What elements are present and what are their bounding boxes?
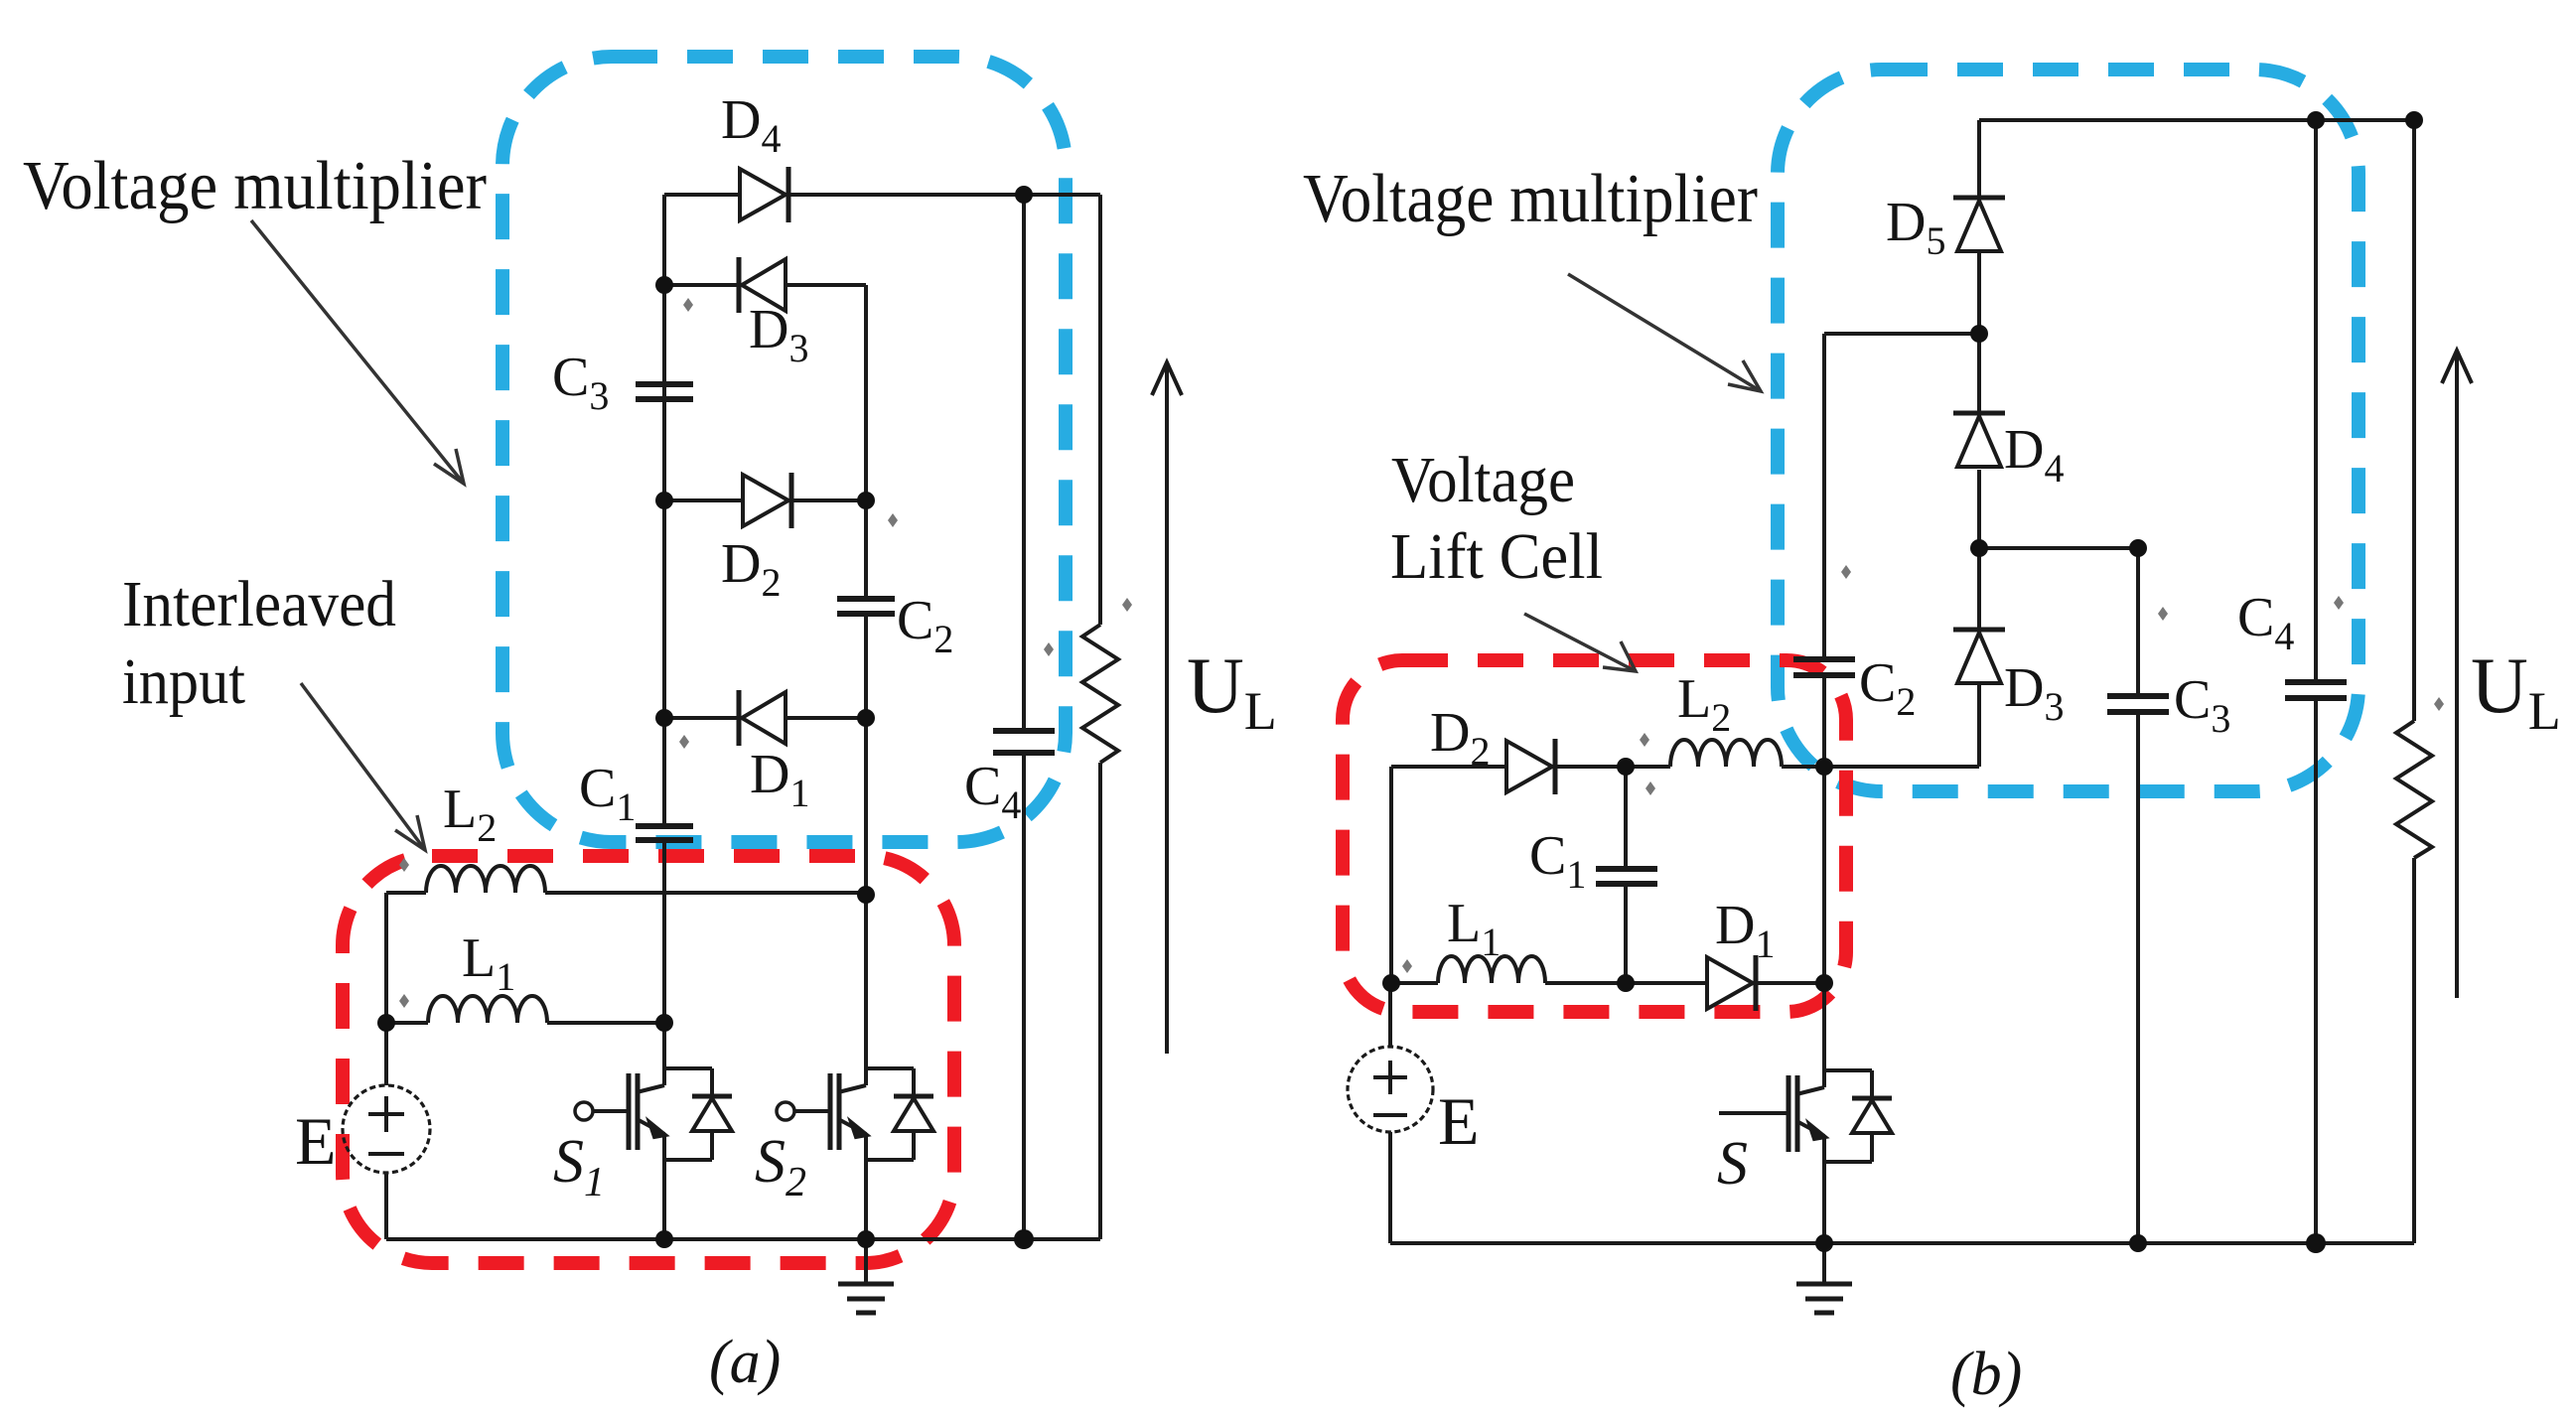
wire: D5 to D4 node (b) <box>1977 251 1981 411</box>
wire: L1 right lead to S1 drain node (a) <box>547 1021 664 1025</box>
diode D3 (b) vertical pointing up <box>1953 628 2005 633</box>
svg-text:Voltage: Voltage <box>1391 444 1575 516</box>
annotation arrow to interleaved input box (a) <box>301 683 425 850</box>
wire: C3 branch vertical (b) <box>2136 548 2140 695</box>
wire: C4 branch vertical x=1031 (a) <box>1022 195 1026 730</box>
node: L1-E junction <box>377 1014 395 1032</box>
node: D2 right junction <box>857 492 875 509</box>
wire: L2 node down to D1 node (b) <box>1822 767 1826 983</box>
diode D1 (b) horizontal pointing right <box>1707 957 1753 1009</box>
voltage source E (b) <box>1348 1047 1433 1132</box>
diode D2 (b) horizontal pointing right <box>1506 741 1552 792</box>
wire: right bus D1 to L2 node to S2 drain (a) <box>864 718 868 1068</box>
wire: load branch vertical x=1108 top (a) <box>1098 195 1102 625</box>
node: S2 emitter rail ground junction <box>857 1230 875 1248</box>
svg-text:Voltage multiplier: Voltage multiplier <box>23 148 487 224</box>
svg-text:E: E <box>295 1103 337 1179</box>
transistor S2 (IGBT) (a) <box>866 1066 914 1070</box>
transistor S1 (IGBT) (a) <box>664 1066 712 1070</box>
voltage source E (a) <box>343 1085 430 1173</box>
annotation arrow to multiplier box (b) <box>1568 274 1761 391</box>
inductor L2 (a) <box>426 866 545 893</box>
node: L2-S2 drain junction <box>857 886 875 904</box>
wire: left bus top (D4 row) (a) <box>664 193 740 197</box>
capacitor C4 (a) <box>993 728 1055 734</box>
wire: L2 left lead (a) <box>386 891 426 895</box>
node: D5-D4 / C2 junction <box>1970 325 1988 343</box>
diode D1 (a) <box>742 692 786 744</box>
junction node dots (a) <box>377 186 1034 1249</box>
wire: D1 row (a) <box>664 716 739 720</box>
node: D1 right junction <box>857 709 875 727</box>
capacitor C2 (a) <box>837 596 895 602</box>
interleaved input dashed boundary box (a) <box>343 856 954 1263</box>
svg-text:Interleaved: Interleaved <box>122 568 396 640</box>
node: D2-L2-C1 junction <box>1617 758 1635 776</box>
wire: D2 anode left vertical (b) <box>1389 767 1393 983</box>
voltage lift cell dashed boundary box (b) <box>1343 660 1846 1012</box>
load resistor R (a) <box>1082 625 1118 763</box>
node: L1-S1 drain junction <box>655 1014 673 1032</box>
annotation arrow to lift cell box (b) <box>1524 614 1636 671</box>
output voltage arrow UL (a) <box>1165 362 1169 1054</box>
wire: E source top lead up to L2 (a) <box>384 893 388 1085</box>
wire: right vertical bus x=872 from D3 to C2 (a) <box>864 285 868 598</box>
capacitor C2 (b) <box>1793 656 1855 662</box>
node: D1 left junction <box>655 709 673 727</box>
node: D4-D3 junction <box>1970 539 1988 557</box>
diode D2 (a) <box>743 475 788 526</box>
wire: C3 branch horizontal at D4-D3 node (b) <box>1979 546 2138 550</box>
annotation arrow to multiplier box (a) <box>251 220 464 484</box>
diode D5 (b) vertical pointing up <box>1953 196 2005 201</box>
svg-text:Lift Cell: Lift Cell <box>1390 520 1603 593</box>
wire: bottom rail (b) <box>1390 1241 2414 1245</box>
wire: load branch vertical bottom (a) <box>1098 763 1102 1239</box>
wire: C4 branch vertical (b) <box>2314 120 2318 681</box>
node: D1-S drain junction <box>1815 974 1833 992</box>
load resistor R (b) <box>2396 721 2432 858</box>
diode D3 (a) <box>742 259 786 311</box>
node: C3 rail junction <box>2129 1234 2147 1252</box>
diode D4 (a) <box>740 169 786 220</box>
wire: L1 left lead (b) <box>1391 981 1438 985</box>
wire: right bus C2 to D1 (a) <box>864 614 868 718</box>
node: S emitter rail ground junction <box>1815 1234 1833 1252</box>
svg-text:E: E <box>1438 1083 1480 1159</box>
output voltage arrow UL (b) <box>2455 351 2459 998</box>
svg-text:(b): (b) <box>1950 1341 2022 1408</box>
wire: C2 branch horizontal at D5-D4 node (b) <box>1824 332 1979 336</box>
wire: D2 row (a) <box>664 498 743 502</box>
junction node dots (b) <box>1382 111 2423 1253</box>
wire: D3 to L2 output corner (b) <box>1977 685 1981 767</box>
ground symbol (a) <box>864 1239 868 1283</box>
capacitor C1 (b) <box>1596 866 1657 872</box>
inductor L2 (b) <box>1670 740 1782 767</box>
wire: load branch vertical top (b) <box>2412 120 2416 721</box>
capacitor C1 (a) <box>636 823 693 829</box>
wire: C1 branch vertical bottom (b) <box>1624 884 1628 983</box>
node: C4 rail junction <box>2306 1233 2326 1253</box>
svg-text:Voltage multiplier: Voltage multiplier <box>1303 161 1758 237</box>
capacitor C3 (b) <box>2107 693 2169 699</box>
wire: L1 to C1 node (b) <box>1545 981 1626 985</box>
wire: D4 cathode to output node (a) <box>789 193 1100 197</box>
polarity diamonds (a) <box>399 298 1132 1008</box>
voltage multiplier dashed boundary box (b) <box>1778 70 2359 791</box>
wire: L2 right lead (b) <box>1782 765 1824 769</box>
node: L2-C2 output junction <box>1815 758 1833 776</box>
polarity diamonds (b) <box>1402 565 2444 973</box>
svg-text:input: input <box>122 645 245 718</box>
wire: C2 branch vertical (b) <box>1822 334 1826 658</box>
node: top rail C4 junction <box>2307 111 2325 129</box>
capacitor C4 (b) <box>2285 679 2347 685</box>
node: top rail load junction <box>2405 111 2423 129</box>
wire: bottom rail (a) <box>386 1237 1100 1241</box>
wire: top output rail (b) <box>1979 118 2414 122</box>
inductor L1 (b) <box>1438 956 1545 983</box>
node: C4 rail junction <box>1014 1229 1034 1249</box>
voltage multiplier dashed boundary box (a) <box>502 57 1066 842</box>
wire: C1 branch vertical top (b) <box>1624 767 1628 868</box>
wire: left vertical bus x=669 from D4 to C1 (a) <box>662 195 666 825</box>
transistor S (IGBT) (b) <box>1822 983 1826 1070</box>
node: D2 left junction <box>655 492 673 509</box>
wire: C2 bottom to L2 node (b) <box>1822 675 1826 767</box>
svg-text:S: S <box>1717 1130 1748 1198</box>
diode D4 (b) vertical pointing up <box>1953 411 2005 416</box>
wire: C1 node to D1 anode (b) <box>1626 981 1707 985</box>
wire: L2 right lead to S2 drain node (a) <box>545 891 866 895</box>
wire: E source bottom lead (b) <box>1388 1132 1392 1243</box>
svg-text:(a): (a) <box>709 1329 781 1396</box>
wire: D1 cathode to drain node (b) <box>1757 981 1824 985</box>
wire: D3 row (a) <box>664 283 739 287</box>
wire: D5 branch top vertical (b) <box>1977 120 1981 196</box>
node: D3 left junction <box>655 276 673 294</box>
node: L1 input junction <box>1382 974 1400 992</box>
ground symbol (b) <box>1822 1243 1826 1283</box>
wire: load branch vertical bottom (b) <box>2412 858 2416 1243</box>
wire: left bus below C1 down to S1 drain node (a) <box>662 839 666 1068</box>
wire: L2 node to multiplier corner (b) <box>1824 765 1979 769</box>
wire: L1 left lead (a) <box>386 1021 428 1025</box>
inductor L1 (a) <box>428 996 547 1023</box>
node: C3 top junction <box>2129 539 2147 557</box>
node: D4 output junction <box>1015 186 1033 204</box>
wire: D4 to D3 node (b) <box>1977 470 1981 628</box>
capacitor C3 (a) <box>636 381 693 387</box>
node: S1 emitter rail junction <box>655 1230 673 1248</box>
wire: E source top lead (b) <box>1388 983 1392 1047</box>
wire: E source bottom lead (a) <box>384 1173 388 1239</box>
wire: D2 row leads (b) <box>1391 765 1506 769</box>
node: L1-C1-D1 junction <box>1617 974 1635 992</box>
